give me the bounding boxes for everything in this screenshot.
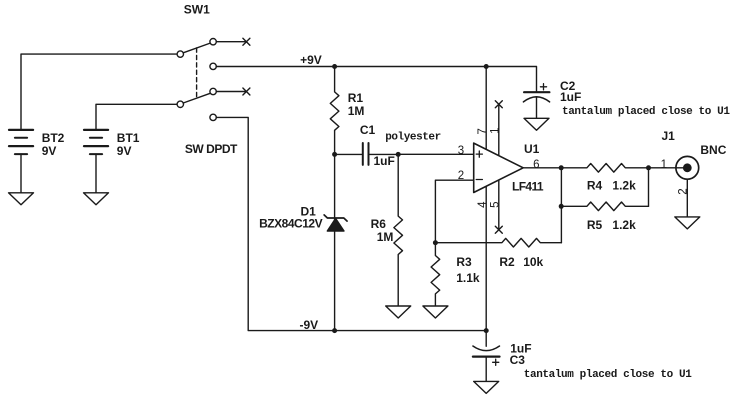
svg-text:7: 7 xyxy=(477,128,489,134)
svg-text:J1: J1 xyxy=(662,129,676,143)
svg-text:R5: R5 xyxy=(587,218,603,232)
svg-text:BZX84C12V: BZX84C12V xyxy=(259,216,323,230)
svg-text:-9V: -9V xyxy=(300,318,319,332)
svg-text:LF411: LF411 xyxy=(512,179,544,193)
svg-text:1.2k: 1.2k xyxy=(612,179,636,193)
svg-text:R6: R6 xyxy=(371,217,387,231)
svg-text:tantalum placed close to U1: tantalum placed close to U1 xyxy=(562,106,730,118)
svg-text:+9V: +9V xyxy=(300,53,322,67)
svg-text:1: 1 xyxy=(661,159,667,171)
svg-text:R2: R2 xyxy=(499,255,515,269)
svg-text:6: 6 xyxy=(533,159,539,171)
svg-text:9V: 9V xyxy=(117,144,132,158)
svg-text:BT1: BT1 xyxy=(117,131,140,145)
svg-text:R4: R4 xyxy=(587,179,603,193)
svg-text:tantalum placed close to U1: tantalum placed close to U1 xyxy=(524,369,692,381)
svg-text:BNC: BNC xyxy=(700,143,726,157)
svg-text:1uF: 1uF xyxy=(560,90,581,104)
svg-text:1M: 1M xyxy=(377,230,394,244)
svg-text:BT2: BT2 xyxy=(42,131,65,145)
svg-text:SW1: SW1 xyxy=(184,3,210,17)
svg-text:C1: C1 xyxy=(360,123,376,137)
svg-text:3: 3 xyxy=(458,145,464,157)
svg-text:1.1k: 1.1k xyxy=(456,271,480,285)
svg-text:1: 1 xyxy=(490,127,502,133)
svg-text:4: 4 xyxy=(477,201,489,208)
svg-text:C3: C3 xyxy=(510,353,526,367)
svg-text:1.2k: 1.2k xyxy=(612,218,636,232)
svg-text:10k: 10k xyxy=(523,255,543,269)
svg-text:2: 2 xyxy=(678,188,690,194)
svg-text:U1: U1 xyxy=(524,142,540,156)
svg-text:2: 2 xyxy=(458,170,464,182)
svg-text:SW DPDT: SW DPDT xyxy=(185,142,238,156)
svg-text:polyester: polyester xyxy=(385,131,441,143)
svg-text:1M: 1M xyxy=(348,104,365,118)
svg-text:1uF: 1uF xyxy=(374,154,395,168)
svg-text:R3: R3 xyxy=(456,255,472,269)
svg-text:5: 5 xyxy=(490,201,502,207)
svg-text:9V: 9V xyxy=(42,144,57,158)
